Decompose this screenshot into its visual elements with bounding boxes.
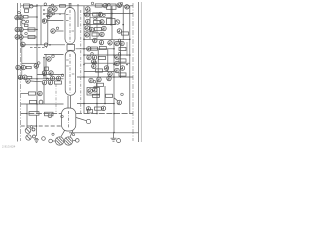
wire vertical x90 xyxy=(89,9,91,40)
resistor R24 xyxy=(93,94,100,97)
tube V2 bottom neck xyxy=(67,96,69,109)
frame right border outer xyxy=(140,2,142,142)
resistor R8 xyxy=(29,92,36,95)
rectifier D1 hatched xyxy=(25,128,31,134)
wire xyxy=(44,53,64,55)
svg-text:2.913.624: 2.913.624 xyxy=(2,145,16,149)
resistor R2b xyxy=(25,24,29,26)
resistor R27 small xyxy=(88,110,93,114)
transistor Q30 xyxy=(90,27,94,31)
transistor Q26 xyxy=(86,19,90,23)
wire xyxy=(77,103,114,105)
resistor R20 xyxy=(119,47,126,50)
transistor Q10 xyxy=(42,71,46,75)
transistor Q22 xyxy=(117,3,122,8)
transistor Q31 xyxy=(117,29,121,33)
transistor Q49 xyxy=(97,77,101,81)
wire vertical x97 xyxy=(96,12,98,39)
resistor R10 xyxy=(29,112,39,116)
transistor Q51 xyxy=(88,89,92,93)
frame left border xyxy=(17,3,19,142)
resistor R17 xyxy=(99,46,106,49)
transistor Q53 xyxy=(117,100,121,104)
transistor Q28 xyxy=(115,20,119,24)
junction dots xyxy=(26,5,130,133)
transistor Q13 xyxy=(53,7,57,11)
transistor Q2 xyxy=(15,15,19,19)
wire xyxy=(23,36,37,38)
label bubble xyxy=(108,3,111,6)
transistor Q14c xyxy=(47,57,51,61)
transistor Q50 xyxy=(107,76,111,80)
wire xyxy=(84,38,130,40)
resistor R15 xyxy=(122,32,129,35)
motor armature M2 hatched circle xyxy=(64,137,72,145)
resistor R5 xyxy=(26,66,31,68)
wire top supply rail xyxy=(21,5,133,7)
transistor Q33 xyxy=(99,40,103,44)
transistor Q11 xyxy=(49,71,53,75)
tube V1 electrodes xyxy=(66,14,69,16)
resistor R1a top-left xyxy=(24,4,30,8)
transistor Q29 xyxy=(85,26,89,30)
wire lower-left vertical xyxy=(26,104,28,128)
wire vertical x44 low xyxy=(43,85,45,104)
transistor Q23 xyxy=(125,5,129,9)
transistor Q21 xyxy=(103,3,107,7)
transistor Q2b xyxy=(19,15,23,19)
wire vertical x98 mid xyxy=(97,49,99,77)
transistor Q27 xyxy=(100,20,104,24)
wire vertical x78 xyxy=(77,4,79,27)
transistor Q43 xyxy=(120,41,124,45)
transistor Q42 xyxy=(115,41,119,45)
transistor Q36 xyxy=(87,55,91,59)
resistor R13 xyxy=(94,20,101,23)
box U1 xyxy=(107,4,117,9)
transistor Q37 xyxy=(92,55,96,59)
wire strong rail right of tube xyxy=(77,76,133,78)
resistor R9 xyxy=(30,100,37,103)
resistor R4 xyxy=(28,35,35,38)
wire xyxy=(47,20,64,22)
wire mid horizontal rail xyxy=(21,44,65,46)
wire mid verticals xyxy=(43,57,45,79)
resistor R16 xyxy=(91,47,98,50)
transistor Q13b xyxy=(48,12,52,16)
wire xyxy=(21,93,28,95)
resistor R7 xyxy=(55,81,62,84)
wire verticals xyxy=(113,40,115,133)
transistor on rail xyxy=(44,43,48,47)
tube V3 legs to armature xyxy=(61,131,65,137)
transistor Q14 xyxy=(42,19,46,23)
transistor Q17 xyxy=(38,91,42,95)
wire xyxy=(84,24,116,26)
wire xyxy=(36,116,38,137)
tube V1 envelope neck xyxy=(68,4,70,8)
resistor Rn2 xyxy=(45,112,54,116)
transistor Q41 xyxy=(108,72,112,76)
transistor Q1 xyxy=(30,5,33,8)
wire xyxy=(30,47,47,49)
tube V1 envelope xyxy=(65,8,75,45)
label bubble neck xyxy=(61,115,64,118)
transistor Q16 xyxy=(48,80,52,84)
resistor R6 xyxy=(27,76,32,78)
terminal xyxy=(32,128,35,131)
wire xyxy=(84,31,96,33)
resistor R14b xyxy=(92,33,99,36)
wire xyxy=(84,54,130,56)
wire xyxy=(84,13,133,15)
chain line tube boundary xyxy=(80,10,82,113)
transistor Q7 xyxy=(21,65,25,69)
label bubble xyxy=(103,14,106,16)
transistor Q25 xyxy=(98,12,102,16)
transistor Q15 xyxy=(42,80,46,84)
resistor R2 xyxy=(24,16,29,19)
frame left chain line xyxy=(20,3,22,141)
transistor Q38 xyxy=(91,60,95,64)
wire xyxy=(55,30,63,32)
wire xyxy=(84,62,130,64)
wire dashed vertical x56 xyxy=(55,84,57,112)
tube V2 electrodes xyxy=(66,59,69,61)
transistor Q54 xyxy=(86,107,90,111)
tube V3 envelope xyxy=(62,108,76,131)
resistor R12 xyxy=(93,13,100,16)
resistor R1b xyxy=(25,9,29,12)
wire xyxy=(43,13,65,15)
label bubble xyxy=(52,12,55,15)
transistor Q45 xyxy=(115,61,119,65)
wire diagonal lead xyxy=(114,98,118,101)
transistor Q2c xyxy=(22,20,26,24)
wire verticals low mid xyxy=(96,78,98,114)
transistor Q4 xyxy=(15,35,19,39)
transistor Q30b xyxy=(102,26,106,30)
wire left vertical bus xyxy=(36,4,38,114)
wire xyxy=(23,29,37,31)
wire bottom right rail xyxy=(69,132,139,134)
terminal right xyxy=(76,139,80,143)
wire xyxy=(90,17,112,19)
ground cross xyxy=(35,138,38,140)
transistor Q9b xyxy=(34,64,38,68)
transistor Q34 xyxy=(108,41,112,45)
wire xyxy=(45,54,47,78)
wire xyxy=(37,74,64,76)
transistor Q56 pickup xyxy=(86,119,90,123)
tube junction box xyxy=(67,45,75,51)
transistor Q40 xyxy=(104,66,108,70)
wire dashed mid-bottom rail xyxy=(21,113,62,115)
motor armature M1 hatched circle xyxy=(55,137,63,145)
tube V2 axis chain line xyxy=(69,54,71,93)
wire left inner vertical xyxy=(21,14,23,79)
wire vertical x107.8 mid xyxy=(107,49,109,72)
resistor R21 xyxy=(119,59,126,62)
transistor Q46 xyxy=(120,66,124,70)
resistor Rm on rail xyxy=(60,5,66,7)
transistor Q4b xyxy=(19,35,23,39)
frame right chain line xyxy=(132,3,134,141)
resistor R26 xyxy=(95,107,102,110)
wire xyxy=(33,5,37,7)
wire dashed lower-left rail xyxy=(21,125,62,127)
transistor Q24 xyxy=(85,13,89,17)
resistor R14 xyxy=(95,28,102,31)
transistor Q20 top-mid rail xyxy=(86,7,90,11)
transistor Q17b xyxy=(39,100,43,104)
transistor Q35 xyxy=(87,47,91,51)
wire xyxy=(22,62,36,64)
box U3 xyxy=(87,88,100,96)
wire xyxy=(28,16,37,18)
resistor R19 xyxy=(96,69,103,72)
resistor R18 xyxy=(99,56,106,59)
resistor R22 xyxy=(119,73,126,76)
frame right border xyxy=(138,2,140,142)
transistor Q12 xyxy=(48,7,52,11)
ground under rectifiers xyxy=(34,139,39,141)
transistor Q9 xyxy=(23,75,27,79)
transistor Q32 xyxy=(93,38,97,42)
transistor Q15a xyxy=(26,79,30,83)
transistor Q14b xyxy=(51,29,55,33)
transistor Q31c xyxy=(100,32,104,36)
transistor Q47 xyxy=(115,68,119,72)
box U2 xyxy=(107,19,116,25)
transistor Q48 xyxy=(89,78,93,82)
tube V2 envelope xyxy=(65,51,75,96)
transistor Q3 xyxy=(15,27,19,31)
label bubble xyxy=(38,62,41,65)
transistor Q52 xyxy=(93,88,97,92)
transistor Q11b xyxy=(56,76,60,80)
ground symbol bottom right xyxy=(113,133,115,138)
transistor Q44 xyxy=(115,55,119,59)
terminal small xyxy=(42,137,46,141)
transistor Q5 xyxy=(20,42,25,47)
transistor Q39 xyxy=(92,64,96,68)
wire xyxy=(76,48,114,50)
transistor Q6 xyxy=(16,65,20,69)
terminal left xyxy=(49,139,53,143)
tube V1 axis chain line xyxy=(69,10,71,42)
resistor R3 xyxy=(28,28,35,31)
terminal xyxy=(33,135,36,138)
transistor Q3b xyxy=(19,27,23,31)
wire xyxy=(84,71,114,73)
wire verticals right block xyxy=(83,6,85,114)
terminal circle xyxy=(117,139,121,143)
resistor R11 on rail xyxy=(95,4,102,7)
transistor Q55 xyxy=(101,106,105,110)
wire strong rail xyxy=(18,78,64,80)
resistor R23 xyxy=(97,83,104,86)
wire xyxy=(21,103,64,105)
rectifier D2 hatched xyxy=(26,135,31,140)
resistor Rv vertical xyxy=(45,67,49,71)
transistor Q10b xyxy=(50,76,54,80)
resistor R25 xyxy=(106,94,113,97)
transistor Q18 xyxy=(48,114,52,118)
wire vertical x111 xyxy=(110,6,112,25)
tube V3 axis chain line xyxy=(68,111,70,129)
label bubbles xyxy=(18,2,124,136)
transistor Q8 xyxy=(18,75,22,79)
transistor Q31b xyxy=(85,33,89,37)
wire xyxy=(30,80,42,83)
